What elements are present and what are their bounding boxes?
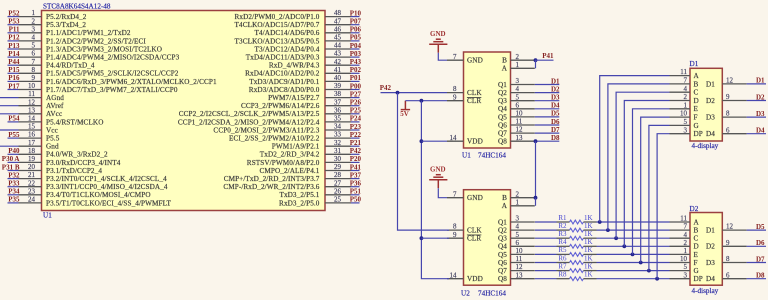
svg-text:5: 5 (516, 93, 520, 101)
net label P26 (350, 99, 362, 107)
U1 74HC164 pin 8 CLK (447, 85, 482, 97)
wire / net label D6 (535, 118, 560, 126)
ground (429, 166, 447, 189)
svg-text:P40: P40 (8, 147, 20, 155)
svg-text:C: C (694, 89, 699, 97)
svg-text:8: 8 (453, 223, 457, 231)
svg-text:41: 41 (334, 66, 342, 74)
svg-text:Q1: Q1 (498, 81, 507, 89)
svg-text:TxD2_2/RD_3/P4.2: TxD2_2/RD_3/P4.2 (260, 151, 320, 159)
wire vertical to display D1 pin (657, 134, 669, 279)
U2 74HC164 pin 6 Q4 (498, 239, 535, 251)
wire to U2 CLR (421, 237, 449, 239)
net label P51 (350, 188, 362, 196)
svg-text:13: 13 (516, 271, 524, 279)
svg-text:P1.1/ADC1/PWM1_2/TxD2: P1.1/ADC1/PWM1_2/TxD2 (46, 29, 131, 37)
svg-text:STC8A8K64S4A12-48: STC8A8K64S4A12-48 (43, 3, 111, 11)
svg-text:9: 9 (726, 239, 730, 247)
U1 74HC164 pin 1 A (502, 61, 535, 73)
net label P02 (350, 66, 362, 74)
svg-text:G: G (694, 122, 699, 130)
U1 pin 38 PWM7/A15/P2.7 (268, 90, 351, 102)
IC U1 STC8A8K64S4A12-48 body (42, 11, 326, 211)
junction VDD U1 (420, 139, 424, 143)
U1 pin 7 P4.4/RD/TxD_4 (19, 58, 95, 70)
svg-text:TxD4/ADC11/AD3/P0.3: TxD4/ADC11/AD3/P0.3 (246, 54, 320, 62)
svg-text:P4.0/WR_3/RxD2_2: P4.0/WR_3/RxD2_2 (46, 151, 108, 159)
svg-text:P34: P34 (8, 188, 20, 196)
svg-text:DP: DP (694, 130, 703, 138)
svg-text:Q5: Q5 (498, 113, 507, 121)
svg-text:19: 19 (28, 155, 36, 163)
U1 74HC164 pin 4 Q2 (498, 85, 535, 97)
svg-text:CMP-/RxD_2/WR_2/INT2/P3.6: CMP-/RxD_2/WR_2/INT2/P3.6 (223, 183, 319, 191)
svg-text:P3.5/T1/T0CLKO/ECI_4/SS_4/PWMF: P3.5/T1/T0CLKO/ECI_4/SS_4/PWMFLT (46, 199, 171, 207)
svg-text:2: 2 (684, 239, 688, 247)
svg-text:P10: P10 (350, 9, 362, 17)
D2 pin 2 D (670, 239, 699, 251)
U1 pin 21 P3.2/INT0/CCP1_4/SCLK_4/I2CSCL_4 (19, 171, 168, 183)
svg-text:P5.5: P5.5 (46, 135, 60, 143)
resistor R1 1K (535, 214, 597, 224)
U1 pin 9 P1.6/ADC6/RxD_3/PWM6_2/XTALO/MCLKO_2/CCP1 (19, 74, 217, 86)
svg-text:P33: P33 (8, 180, 20, 188)
svg-text:10: 10 (680, 110, 688, 118)
svg-text:T3CLKO/ADC13/AD5/P0.5: T3CLKO/ADC13/AD5/P0.5 (235, 37, 320, 45)
svg-text:9: 9 (726, 93, 730, 101)
svg-text:10: 10 (516, 110, 524, 118)
svg-text:D6: D6 (551, 118, 560, 126)
U1 pin 35 CCP1_2/I2CSDA_2/MISO_2/PWM4/A12/P2.4 (178, 115, 351, 127)
svg-text:P5.3/TxD4_2: P5.3/TxD4_2 (46, 21, 86, 29)
net label P21 (350, 139, 362, 147)
shift register U2 74HC164 body (464, 190, 511, 286)
U2 74HC164 pin 2 B (502, 190, 535, 202)
svg-text:10: 10 (516, 247, 524, 255)
svg-text:D3: D3 (756, 110, 765, 118)
svg-text:4: 4 (684, 85, 688, 93)
svg-text:P21: P21 (350, 139, 362, 147)
U1 pin 33 ECI_2/SS_2/PWM2/A10/P2.2 (229, 131, 351, 143)
U1 pin 48 RxD2/PWM0_2/ADC0/P1.0 (235, 9, 351, 21)
svg-text:B: B (694, 80, 699, 88)
wire / net label D1 (535, 77, 560, 85)
U1 pin 34 CCP0_2/MOSI_2/PWM3/A11/P2.3 (213, 123, 351, 135)
svg-text:D: D (694, 97, 699, 105)
svg-text:RxD_4/WR/P4.3: RxD_4/WR/P4.3 (269, 62, 320, 70)
U1 74HC164 pin 3 Q1 (498, 77, 535, 89)
svg-text:P3.3/INT1/CCP0_4/MISO_4/I2CSDA: P3.3/INT1/CCP0_4/MISO_4/I2CSDA_4 (46, 183, 168, 191)
svg-text:14: 14 (450, 271, 458, 279)
net label P06 (350, 26, 362, 34)
svg-text:38: 38 (334, 90, 342, 98)
D1 pin 9 D2 (706, 93, 747, 105)
svg-text:CCP2_2/I2CSCL_2/SCLK_2/PWM5/A1: CCP2_2/I2CSCL_2/SCLK_2/PWM5/A13/P2.5 (179, 110, 320, 118)
D1 pin 3 DP (670, 126, 703, 138)
D1 pin 5 G (670, 118, 699, 130)
svg-text:B: B (502, 57, 507, 65)
svg-text:3: 3 (516, 215, 520, 223)
svg-text:P07: P07 (350, 18, 362, 26)
svg-text:CCP1_2/I2CSDA_2/MISO_2/PWM4/A1: CCP1_2/I2CSDA_2/MISO_2/PWM4/A12/P2.4 (178, 118, 320, 126)
D1 pin 7 B (670, 77, 699, 89)
svg-text:CMP+/TxD_2/RD_2/INT3/P3.7: CMP+/TxD_2/RD_2/INT3/P3.7 (224, 175, 320, 183)
wire (0, 105, 19, 107)
net label P27 (350, 90, 362, 98)
svg-text:P16: P16 (8, 74, 20, 82)
junction node seg4 (622, 244, 626, 248)
U2 74HC164 pin 1 A (502, 198, 535, 210)
U1 pin 30 RSTSV/PWM0/A8/P2.0 (247, 155, 351, 167)
svg-text:31: 31 (334, 147, 342, 155)
svg-text:P42: P42 (380, 84, 392, 92)
svg-text:5: 5 (684, 263, 688, 271)
D2 pin 1 E (670, 247, 699, 259)
net label P16 (8, 74, 20, 82)
svg-text:9: 9 (32, 74, 36, 82)
svg-text:D7: D7 (551, 126, 560, 134)
svg-text:RxD3/ADC8/AD0/P0.0: RxD3/ADC8/AD0/P0.0 (249, 86, 320, 94)
net label D7 (747, 255, 766, 263)
svg-text:12: 12 (28, 98, 36, 106)
svg-text:6: 6 (32, 50, 36, 58)
U1 pin 11 AGnd (19, 90, 65, 102)
net label P04 (350, 42, 362, 50)
svg-text:10: 10 (28, 82, 36, 90)
wire 5V rail down (421, 101, 449, 279)
svg-text:7: 7 (453, 53, 457, 61)
svg-text:45: 45 (334, 34, 342, 42)
svg-text:E: E (694, 105, 699, 113)
svg-text:1K: 1K (584, 222, 593, 230)
svg-text:B: B (502, 194, 507, 202)
svg-text:5V: 5V (400, 110, 409, 118)
svg-text:RSTSV/PWM0/A8/P2.0: RSTSV/PWM0/A8/P2.0 (247, 159, 320, 167)
svg-text:8: 8 (453, 85, 457, 93)
svg-text:7: 7 (684, 77, 688, 85)
svg-text:Q7: Q7 (498, 130, 507, 138)
svg-text:AVcc: AVcc (46, 110, 62, 118)
D2 pin 12 D1 (706, 223, 747, 235)
wire / net label D2 (535, 85, 560, 93)
net label P32 (8, 171, 20, 179)
svg-text:T4CLKO/ADC15/AD7/P0.7: T4CLKO/ADC15/AD7/P0.7 (235, 21, 320, 29)
svg-text:4: 4 (684, 231, 688, 239)
resistor R7 1K (535, 262, 597, 272)
svg-text:P35: P35 (8, 196, 20, 204)
svg-text:1K: 1K (584, 254, 593, 262)
svg-text:Q3: Q3 (498, 97, 507, 105)
svg-text:Q2: Q2 (498, 89, 507, 97)
svg-text:P4.4/RD/TxD_4: P4.4/RD/TxD_4 (46, 62, 95, 70)
net label P43 (350, 58, 362, 66)
junction node seg5 (631, 253, 635, 257)
U2 74HC164 pin 5 Q3 (498, 231, 535, 243)
U1 pin 20 P3.1/TxD/CCP2_4 (19, 163, 103, 175)
net label P42 (350, 147, 362, 155)
U1 pin 44 T3/ADC12/AD4/P0.4 (255, 42, 352, 54)
resistor R3 1K (535, 230, 597, 240)
net label D6 (747, 239, 766, 247)
U1 pin 1 P5.2/RxD4_2 (19, 9, 87, 21)
U1 pin 19 P3.0/RxD/CCP3_4/INT4 (19, 155, 121, 167)
D2 pin 11 A (670, 215, 700, 227)
svg-text:6: 6 (726, 126, 730, 134)
svg-text:P44: P44 (8, 58, 20, 66)
U1 pin 28 CMP+/TxD_2/RD_2/INT3/P3.7 (224, 171, 351, 183)
svg-text:1: 1 (516, 198, 520, 206)
U1 74HC164 pin 12 Q7 (498, 126, 535, 138)
svg-text:P1.4/ADC4/PWM4_2/MISO/I2CSDA/C: P1.4/ADC4/PWM4_2/MISO/I2CSDA/CCP3 (46, 54, 180, 62)
U1 pin 36 CCP2_2/I2CSCL_2/SCLK_2/PWM5/A13/P2.5 (179, 106, 351, 118)
junction CLR (420, 99, 424, 103)
U1 pin 18 P4.0/WR_3/RxD2_2 (19, 147, 109, 159)
svg-text:ECI_2/SS_2/PWM2/A10/P2.2: ECI_2/SS_2/PWM2/A10/P2.2 (229, 135, 320, 143)
wire segment to display D2 (597, 229, 670, 231)
svg-text:D3: D3 (706, 259, 715, 267)
net label P55 (8, 131, 20, 139)
wire vertical to display D1 pin (624, 101, 669, 247)
svg-text:P01: P01 (350, 74, 362, 82)
wire segment to display D2 (597, 270, 670, 272)
net label P03 (350, 50, 362, 58)
svg-text:28: 28 (334, 171, 342, 179)
U1 pin 13 AVcc (19, 106, 63, 118)
svg-text:P53: P53 (8, 18, 20, 26)
svg-text:Q1: Q1 (498, 218, 507, 226)
svg-text:21: 21 (28, 171, 36, 179)
U2 74HC164 pin 9 CLR (447, 231, 481, 243)
svg-text:P5.2/RxD4_2: P5.2/RxD4_2 (46, 13, 87, 21)
svg-text:P43: P43 (350, 58, 362, 66)
svg-text:11: 11 (680, 215, 687, 223)
svg-text:1K: 1K (584, 271, 593, 279)
svg-text:P55: P55 (8, 131, 20, 139)
svg-text:VDD: VDD (467, 138, 483, 146)
svg-text:P1.2/ADC2/PWM2_2/SS/T2/ECI: P1.2/ADC2/PWM2_2/SS/T2/ECI (46, 37, 146, 45)
D2 pin 6 D4 (706, 271, 747, 283)
svg-text:R4: R4 (558, 238, 567, 246)
svg-text:RxD3_2/P5.0: RxD3_2/P5.0 (279, 199, 320, 207)
net label P10 (350, 9, 362, 17)
junction CLK (396, 91, 400, 95)
svg-text:1: 1 (684, 101, 688, 109)
svg-text:37: 37 (334, 98, 342, 106)
svg-text:33: 33 (334, 131, 342, 139)
svg-text:30: 30 (334, 155, 342, 163)
svg-text:P1.3/ADC3/PWM3_2/MOSI/TC2LKO: P1.3/ADC3/PWM3_2/MOSI/TC2LKO (46, 45, 162, 53)
svg-text:PWM7/A15/P2.7: PWM7/A15/P2.7 (268, 94, 320, 102)
U1 pin 23 P3.4/T0/T1CLKO/MOSI_4/CMPO (19, 187, 151, 199)
svg-text:47: 47 (334, 17, 342, 25)
svg-text:3: 3 (684, 126, 688, 134)
svg-text:D8: D8 (551, 134, 560, 142)
net label P36 (350, 180, 362, 188)
svg-text:U2: U2 (461, 289, 470, 297)
svg-text:P41: P41 (350, 163, 362, 171)
U1 74HC164 pin 5 Q3 (498, 93, 535, 105)
U1 pin 43 TxD4/ADC11/AD3/P0.3 (246, 50, 351, 62)
svg-text:U1: U1 (462, 151, 471, 159)
U2 74HC164 pin 12 Q7 (498, 263, 535, 275)
svg-text:P3.0/RxD/CCP3_4/INT4: P3.0/RxD/CCP3_4/INT4 (46, 159, 121, 167)
U1 pin 42 RxD_4/WR/P4.3 (269, 58, 351, 70)
svg-text:12: 12 (516, 263, 524, 271)
svg-text:E: E (694, 251, 699, 259)
U1 pin 17 Gnd (19, 139, 59, 151)
net label P41 (350, 163, 362, 171)
net label P11 (8, 26, 20, 34)
U1 pin 40 TxD3/ADC9/AD1/P0.1 (249, 74, 351, 86)
svg-text:4: 4 (516, 85, 520, 93)
ground (429, 30, 447, 53)
svg-text:12: 12 (726, 223, 734, 231)
svg-text:GND: GND (430, 166, 446, 174)
net label P23 (350, 123, 362, 131)
svg-text:2: 2 (516, 53, 520, 61)
svg-text:5: 5 (32, 42, 36, 50)
D2 pin 8 D3 (706, 255, 747, 267)
svg-text:Q4: Q4 (498, 105, 507, 113)
svg-text:P3.1/TxD/CCP2_4: P3.1/TxD/CCP2_4 (46, 167, 102, 175)
U1 74HC164 pin 2 B (502, 53, 535, 65)
U1 pin 4 P1.2/ADC2/PWM2_2/SS/T2/ECI (19, 34, 147, 46)
svg-text:P26: P26 (350, 99, 362, 107)
svg-text:11: 11 (28, 90, 35, 98)
U1 part number label (43, 3, 111, 11)
wire vertical to display D1 pin (633, 109, 670, 255)
wire / net label D8 (535, 134, 560, 142)
U1 pin 27 CMP-/RxD_2/WR_2/INT2/P3.6 (223, 179, 351, 191)
svg-text:D1: D1 (551, 77, 560, 85)
net label D3 (747, 110, 766, 118)
U2 74HC164 pin 10 Q5 (498, 247, 535, 259)
net label P14 (8, 50, 20, 58)
svg-text:D2: D2 (706, 97, 715, 105)
svg-text:Q8: Q8 (498, 138, 507, 146)
svg-text:D4: D4 (706, 130, 715, 138)
wire (0, 129, 19, 131)
svg-text:25: 25 (334, 196, 342, 204)
svg-text:D4: D4 (551, 102, 560, 110)
svg-text:TxD3/ADC9/AD1/P0.1: TxD3/ADC9/AD1/P0.1 (249, 78, 320, 86)
svg-text:R5: R5 (558, 246, 567, 254)
svg-text:P30 A: P30 A (2, 155, 20, 163)
net label P44 (8, 58, 20, 66)
svg-text:CCP3_2/PWM6/A14/P2.6: CCP3_2/PWM6/A14/P2.6 (241, 102, 320, 110)
U1 pin 41 RxD4/ADC10/AD2/P0.2 (245, 66, 351, 78)
junction node seg1 (598, 220, 602, 224)
U1 74HC164 pin 14 VDD (447, 134, 483, 146)
net label P17 (8, 82, 20, 90)
U1 pin 39 RxD3/ADC8/AD0/P0.0 (249, 82, 351, 94)
svg-text:D1: D1 (706, 80, 715, 88)
svg-text:1K: 1K (584, 230, 593, 238)
svg-text:P1.5/ADC5/PWM5_2/SCLK/I2CSCL/C: P1.5/ADC5/PWM5_2/SCLK/I2CSCL/CCP2 (46, 70, 179, 78)
svg-text:U1: U1 (43, 212, 52, 220)
wire to U1 74HC164 VDD (421, 140, 447, 142)
svg-text:4: 4 (32, 34, 36, 42)
net label P15 (8, 66, 20, 74)
junction node seg2 (606, 228, 610, 232)
svg-text:D1: D1 (706, 227, 715, 235)
resistor R6 1K (535, 254, 597, 264)
svg-text:A: A (502, 65, 508, 73)
wire segment to display D2 (597, 221, 670, 223)
U1 pin 15 Vcc (19, 123, 58, 135)
svg-text:F: F (694, 114, 698, 122)
svg-text:VDD: VDD (467, 275, 483, 283)
svg-text:16: 16 (28, 131, 36, 139)
wire vertical to display D1 pin (616, 92, 669, 238)
svg-text:1K: 1K (584, 238, 593, 246)
wire vertical to display D1 pin (600, 76, 670, 222)
U1 74HC164 pin 13 Q8 (498, 134, 535, 146)
svg-text:29: 29 (334, 163, 342, 171)
svg-text:12: 12 (726, 77, 734, 85)
net label D2 (747, 93, 766, 101)
svg-text:6: 6 (516, 239, 520, 247)
D2 pin 3 DP (670, 271, 703, 283)
U1 74HC164 pin 9 CLR (447, 93, 481, 105)
svg-text:P11: P11 (9, 26, 20, 34)
wire net P42 to U1 74HC164 CLK (381, 92, 448, 94)
svg-text:RxD2/PWM0_2/ADC0/P1.0: RxD2/PWM0_2/ADC0/P1.0 (235, 13, 320, 21)
svg-text:CMPO_2/ALE/P4.1: CMPO_2/ALE/P4.1 (259, 167, 319, 175)
svg-text:D2: D2 (706, 243, 715, 251)
svg-text:8: 8 (726, 110, 730, 118)
net label P50 (350, 196, 362, 204)
U1 pin 46 T4/ADC14/AD6/P0.6 (255, 25, 352, 37)
D1 pin 1 E (670, 101, 699, 113)
wire / net label D3 (535, 94, 560, 102)
U1 pin 6 P1.4/ADC4/PWM4_2/MISO/I2CSDA/CCP3 (19, 50, 180, 62)
svg-text:CLK: CLK (467, 89, 482, 97)
svg-text:P13: P13 (8, 42, 20, 50)
svg-text:10: 10 (680, 255, 688, 263)
svg-text:43: 43 (334, 50, 342, 58)
svg-text:9: 9 (453, 93, 457, 101)
display D2 body (690, 213, 722, 286)
U1 pin 10 P1.7/ADC7/TxD_3/PWM7_2/XTALI/CCP0 (19, 82, 178, 94)
svg-text:2: 2 (684, 93, 688, 101)
svg-text:42: 42 (334, 58, 342, 66)
svg-text:1: 1 (32, 9, 36, 17)
svg-text:Q7: Q7 (498, 267, 507, 275)
net label D4 (747, 127, 766, 135)
svg-text:D1: D1 (756, 77, 765, 85)
wire / net label D4 (535, 102, 560, 110)
svg-text:36: 36 (334, 106, 342, 114)
svg-text:GND: GND (467, 194, 483, 202)
wire segment to display D2 (597, 253, 670, 255)
svg-text:D4: D4 (706, 275, 715, 283)
svg-text:7: 7 (32, 58, 36, 66)
svg-text:Gnd: Gnd (46, 143, 59, 151)
svg-text:P27: P27 (350, 90, 362, 98)
U1 pin 45 T3CLKO/ADC13/AD5/P0.5 (235, 34, 351, 46)
net label P20 (350, 155, 362, 163)
svg-text:14: 14 (28, 115, 36, 123)
wire (438, 188, 447, 198)
svg-text:17: 17 (28, 139, 36, 147)
svg-text:3: 3 (516, 77, 520, 85)
svg-text:40: 40 (334, 74, 342, 82)
D2 pin 4 C (670, 231, 699, 243)
svg-text:26: 26 (334, 187, 342, 195)
svg-text:Q6: Q6 (498, 121, 507, 129)
svg-text:8: 8 (32, 66, 36, 74)
